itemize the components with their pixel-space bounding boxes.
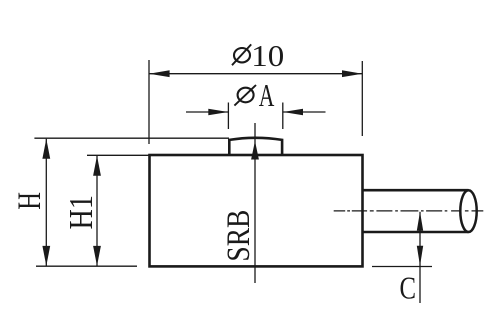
cable top line bbox=[362, 189, 469, 192]
dimension H top arrow bbox=[42, 139, 50, 159]
SRB leader line bbox=[254, 123, 256, 283]
dimension DA right tail line bbox=[283, 111, 326, 113]
dimension H1 bottom arrow bbox=[93, 246, 101, 266]
svg-text:H: H bbox=[12, 192, 48, 210]
dimension DA right arrow bbox=[283, 109, 303, 115]
svg-text:H1: H1 bbox=[63, 195, 100, 230]
cable bottom line bbox=[362, 231, 469, 234]
dimension D10 right extension line bbox=[361, 61, 363, 136]
dimension H bottom arrow bbox=[42, 246, 50, 266]
dimension D10 left extension line bbox=[148, 60, 150, 144]
dimension C extension line bbox=[372, 266, 432, 268]
dimension D10 right arrow bbox=[342, 70, 362, 77]
dimension H dimension line bbox=[45, 139, 47, 266]
label DA diameter symbol bbox=[234, 85, 256, 106]
dimension DA right extension line bbox=[282, 103, 284, 130]
dimension C down arrow bbox=[417, 246, 423, 266]
SRB leader arrow bbox=[251, 141, 259, 160]
dimension C up arrow bbox=[417, 212, 423, 231]
dimension DA left arrow bbox=[208, 109, 228, 115]
dimension D10 dimension line bbox=[149, 73, 362, 75]
dimension H1 dimension line bbox=[96, 156, 98, 266]
cable centerline bbox=[334, 210, 484, 212]
dimension D10 left arrow bbox=[149, 70, 170, 77]
svg-text:C: C bbox=[400, 270, 417, 306]
svg-text:A: A bbox=[259, 78, 275, 113]
dimension H bottom extension line bbox=[36, 265, 137, 267]
svg-text:10: 10 bbox=[251, 38, 284, 73]
main body outline bbox=[150, 155, 363, 266]
dimension H1 top arrow bbox=[93, 156, 101, 176]
dimension H1 top extension line bbox=[87, 154, 149, 156]
load button boss bbox=[229, 138, 282, 155]
dimension C dimension line bbox=[419, 212, 421, 303]
dimension DA left tail line bbox=[186, 111, 228, 113]
svg-text:SRB: SRB bbox=[221, 210, 257, 262]
dimension DA left extension line bbox=[227, 103, 229, 130]
dimension H top extension line bbox=[34, 137, 229, 139]
label D10 diameter symbol bbox=[232, 44, 251, 65]
cable end cap bbox=[460, 190, 476, 232]
